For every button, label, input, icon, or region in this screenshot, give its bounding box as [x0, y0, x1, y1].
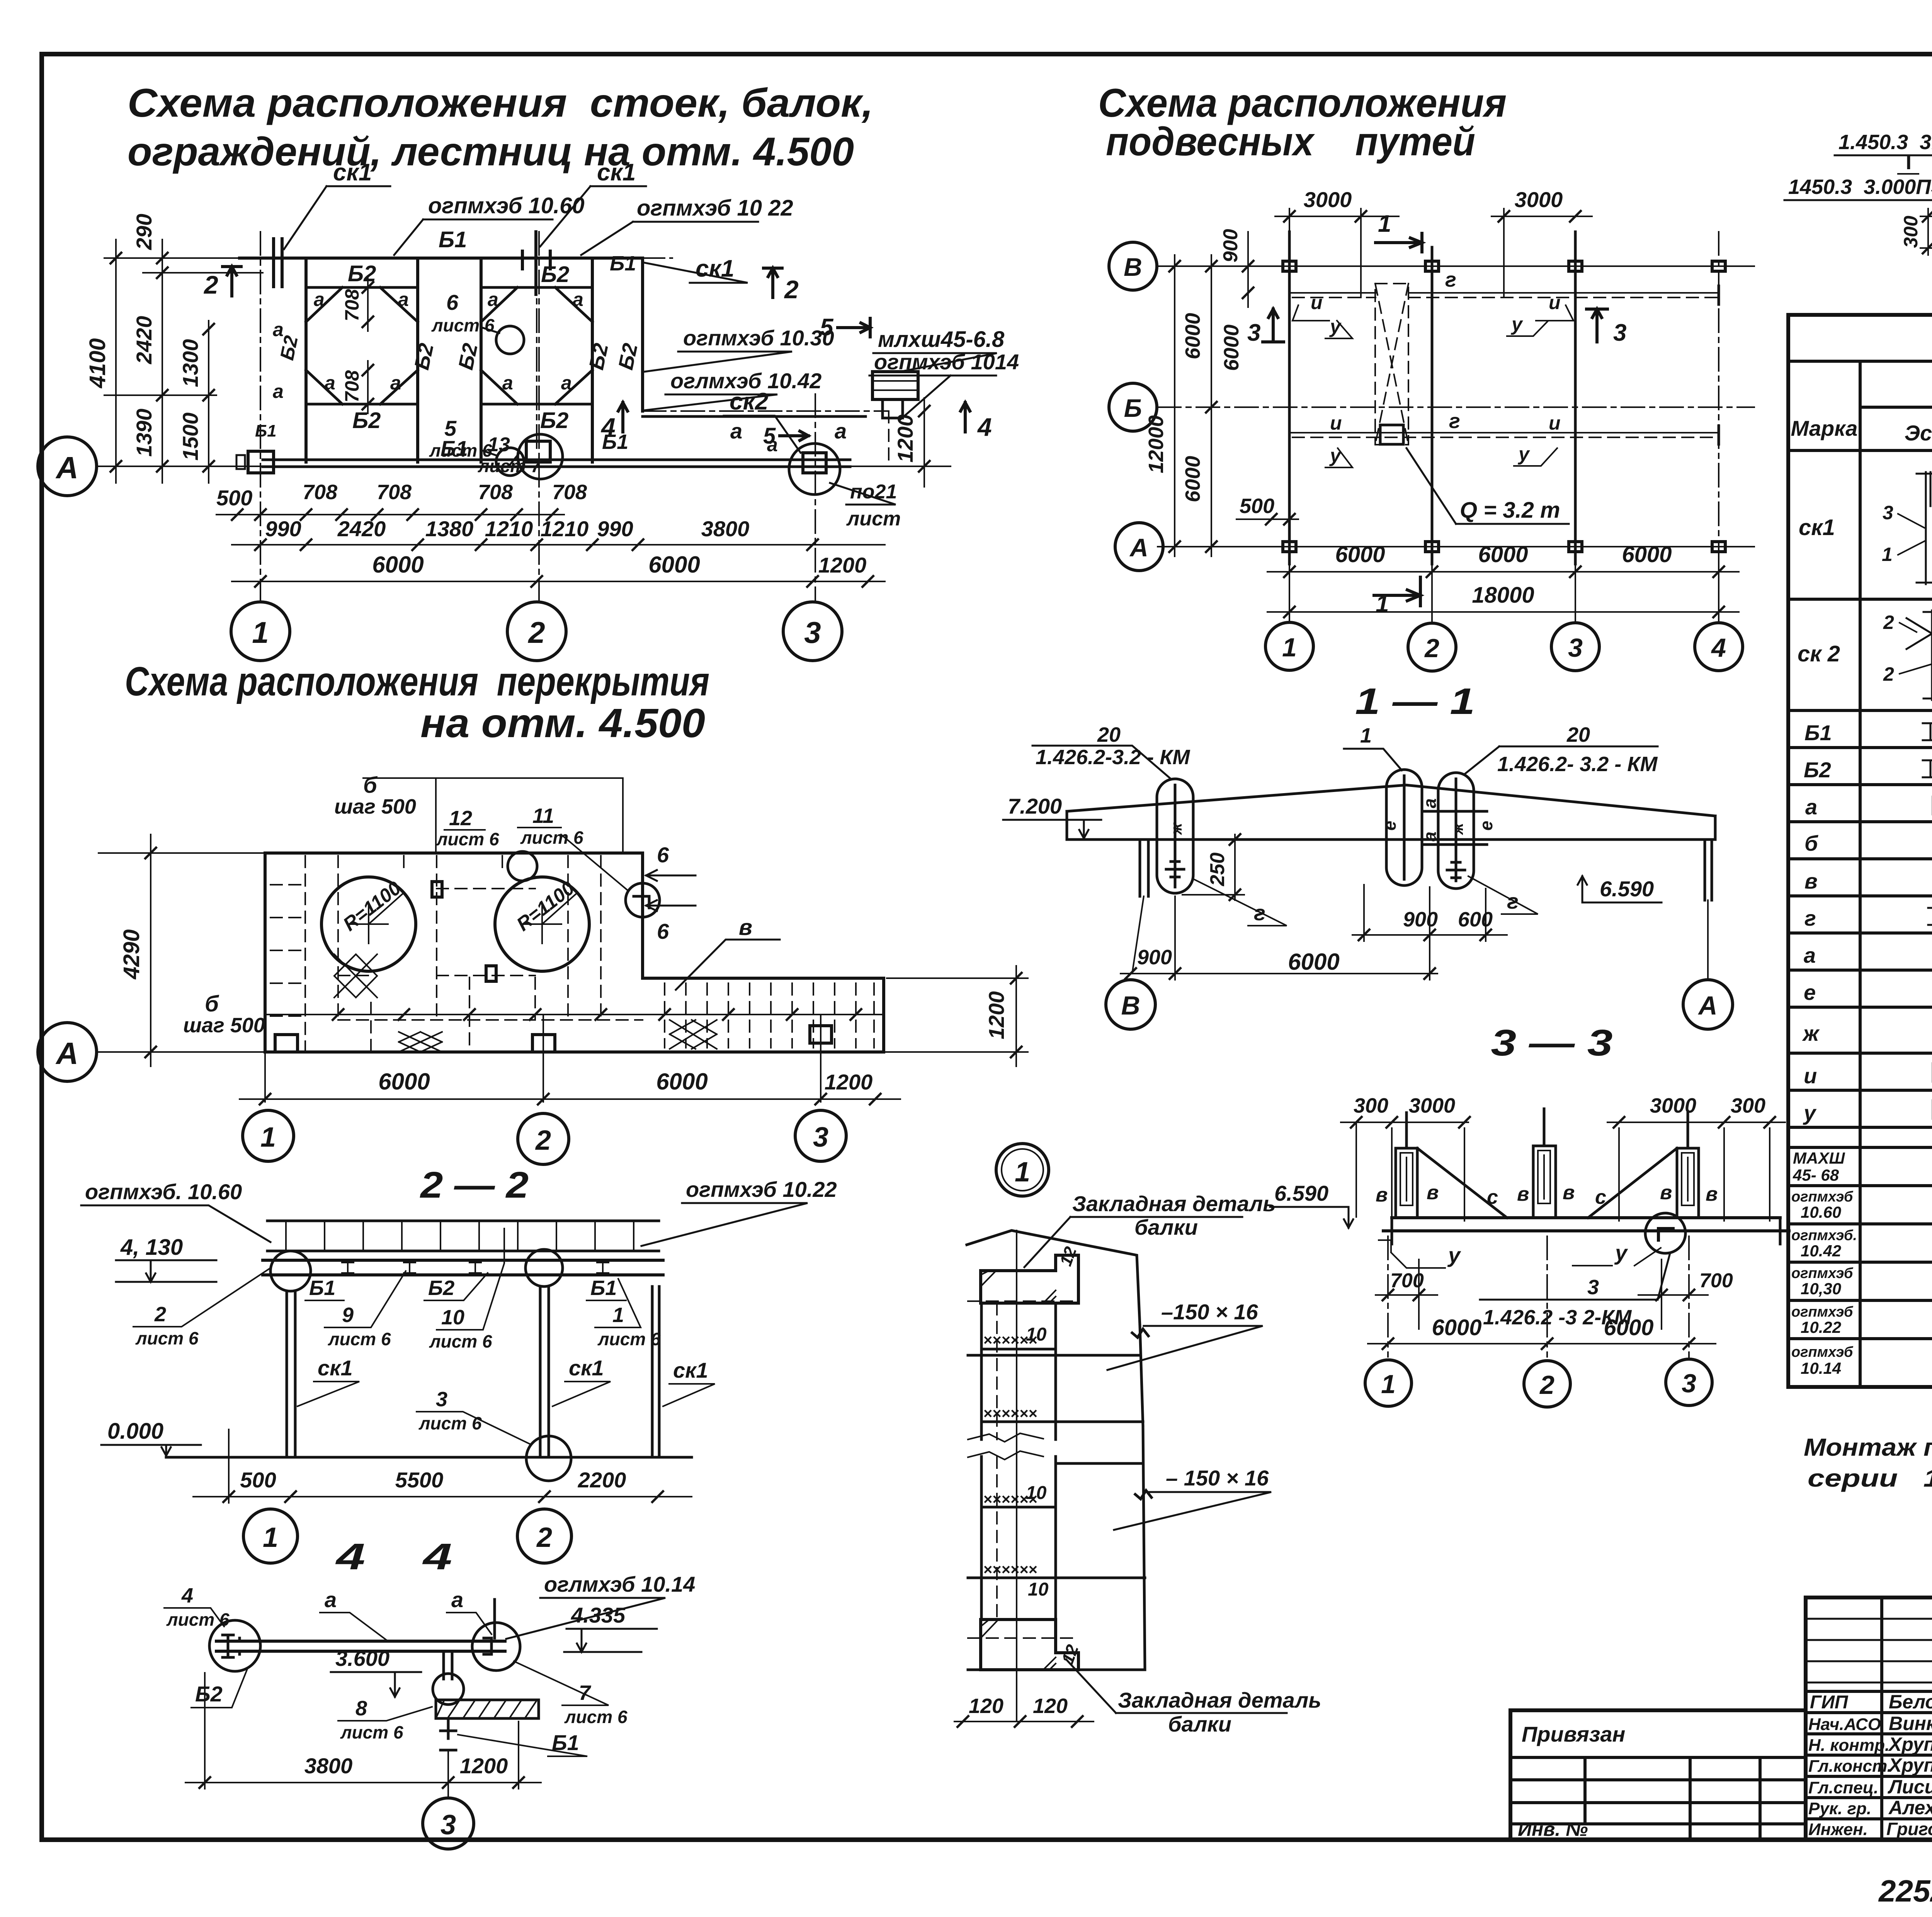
- svg-text:2: 2: [1883, 612, 1894, 633]
- svg-text:у: у: [1614, 1241, 1628, 1265]
- svg-text:6: 6: [657, 843, 669, 867]
- connect plate a bottom: [1422, 843, 1487, 846]
- section mark 4 left: [618, 403, 628, 432]
- beam line x1245: [480, 258, 483, 462]
- svg-text:500: 500: [240, 1468, 276, 1492]
- g right leader: [1468, 876, 1538, 914]
- svg-text:1: 1: [1360, 724, 1372, 747]
- section mark 5 top: [838, 318, 870, 337]
- section mark 2 right: [764, 268, 782, 297]
- post 2 rod: [1543, 1109, 1546, 1146]
- svg-text:Инжен.: Инжен.: [1808, 1820, 1868, 1839]
- hanger 1 outline: [1157, 779, 1193, 893]
- svg-text:3 — 3: 3 — 3: [1491, 1022, 1613, 1064]
- 8 underline leader: [338, 1707, 432, 1721]
- dim 900-6000 line: [1121, 973, 1437, 974]
- svg-text:Винклер: Винклер: [1889, 1713, 1932, 1734]
- svg-text:Лисичкин: Лисичкин: [1888, 1776, 1932, 1798]
- tb small rows: [1806, 1619, 1932, 1682]
- svg-text:2: 2: [1424, 634, 1439, 663]
- CK1 sketch leaders: [1898, 486, 1932, 555]
- svg-text:МАХШ: МАХШ: [1793, 1149, 1845, 1167]
- svg-text:10: 10: [1026, 1324, 1047, 1345]
- svg-text:Б1: Б1: [590, 1276, 617, 1300]
- roof top chord: [1067, 785, 1715, 816]
- 10.14 underline leader: [506, 1598, 665, 1639]
- column at axis3: [803, 453, 826, 473]
- deck top line: [267, 1220, 659, 1222]
- svg-text:900: 900: [1137, 946, 1172, 969]
- svg-text:2: 2: [784, 275, 799, 304]
- svg-text:и: и: [1549, 292, 1561, 313]
- svg-text:лист 6: лист 6: [436, 829, 499, 849]
- MLHSh underline leader: [873, 353, 997, 372]
- bay B bottom beam B2: [481, 403, 592, 406]
- axis A line: [97, 466, 951, 467]
- ext 300 vert: [1920, 216, 1932, 248]
- right end plate: [484, 1599, 495, 1654]
- svg-text:120: 120: [1033, 1694, 1068, 1718]
- svg-text:Схема расположения стоек, бал: Схема расположения стоек, балок,: [128, 81, 873, 126]
- u1 mark: [1325, 321, 1352, 338]
- left stub axis: [1132, 896, 1144, 974]
- hanger circle s44: [433, 1674, 464, 1705]
- v leader: [676, 940, 780, 990]
- svg-text:–150 × 16: –150 × 16: [1161, 1300, 1259, 1324]
- 3 underline leader: [417, 1412, 530, 1444]
- pp circle 1: [1265, 622, 1313, 670]
- svg-text:1.426.2-3.2 - КМ: 1.426.2-3.2 - КМ: [1036, 746, 1190, 769]
- svg-text:Монтаж подвесных путей вести: Монтаж подвесных путей вести строго по у…: [1804, 1433, 1932, 1461]
- svg-text:б: б: [363, 773, 378, 798]
- ext s44 left: [204, 1673, 206, 1789]
- header bottom line: [1788, 449, 1932, 452]
- column left cap circle: [270, 1251, 311, 1291]
- axis drop 3: [820, 1015, 821, 1102]
- svg-text:Алехова: Алехова: [1888, 1797, 1932, 1818]
- post 3 rod: [1687, 1113, 1689, 1148]
- svg-text:6.590: 6.590: [1274, 1181, 1328, 1205]
- hanger 2 rod: [1403, 776, 1406, 879]
- svg-text:1210: 1210: [485, 517, 533, 541]
- title block outer: [1806, 1597, 1932, 1840]
- svg-text:в: в: [1660, 1181, 1672, 1204]
- 3 km leader: [1658, 1253, 1670, 1300]
- ext 250: [1182, 894, 1244, 896]
- svg-text:а: а: [273, 381, 284, 402]
- svg-text:6000: 6000: [1335, 542, 1385, 567]
- svg-text:300: 300: [1354, 1094, 1388, 1117]
- s33 circle 1: [1365, 1360, 1412, 1406]
- pp dim row1: [1267, 571, 1739, 573]
- svg-text:огпмхэб. 10.60: огпмхэб. 10.60: [85, 1179, 242, 1204]
- B2 underline leader s44: [191, 1669, 247, 1708]
- beam band bottom: [263, 1273, 663, 1276]
- svg-text:Б: Б: [1124, 394, 1142, 422]
- level 0.000 mark: [101, 1445, 201, 1456]
- ext 3000 left: [1289, 209, 1361, 297]
- svg-text:в: в: [1804, 869, 1818, 893]
- svg-text:1200: 1200: [984, 991, 1009, 1040]
- rail B hooks: [1293, 297, 1719, 298]
- dim 900-600 line: [1352, 934, 1507, 936]
- dim chain 290/2420/1390 line: [162, 240, 163, 483]
- section 3 mark left: [1263, 309, 1284, 342]
- svg-text:огпмхэб 10 22: огпмхэб 10 22: [637, 195, 793, 221]
- svg-text:250: 250: [1206, 853, 1229, 887]
- splice band 1 top: [968, 1354, 1140, 1357]
- svg-text:лист 6: лист 6: [564, 1707, 628, 1727]
- column mid: [540, 1286, 549, 1457]
- svg-text:4, 130: 4, 130: [120, 1235, 183, 1260]
- hanger 2 outline: [1386, 770, 1422, 885]
- svg-text:3000: 3000: [1515, 187, 1563, 212]
- svg-text:3: 3: [1682, 1369, 1696, 1398]
- 1 hanger leader: [1344, 749, 1402, 770]
- u4 mark: [1514, 448, 1557, 466]
- tb person rows: [1806, 1691, 1932, 1819]
- splice band 1 bottom: [981, 1421, 1143, 1423]
- svg-text:и: и: [1549, 412, 1561, 434]
- weld line 3: [981, 1506, 1056, 1509]
- svg-text:Б2: Б2: [195, 1682, 223, 1706]
- svg-text:10.42: 10.42: [1801, 1242, 1841, 1260]
- s44 axis drop: [447, 1750, 449, 1798]
- axis 3 line: [815, 394, 816, 601]
- extension top left: [99, 852, 270, 854]
- dim 900 line pp: [1247, 232, 1249, 307]
- dashed flange inner: [996, 1303, 998, 1620]
- column at axis2 circle 13: [518, 434, 563, 479]
- svg-text:6000: 6000: [378, 1069, 430, 1094]
- svg-text:а: а: [398, 289, 409, 310]
- floor strip s44: [436, 1700, 539, 1718]
- CK2 sketch: [1906, 610, 1932, 700]
- svg-text:лист 6: лист 6: [328, 1329, 391, 1349]
- axis B circle s11: [1106, 980, 1155, 1029]
- ext s44 right: [518, 1722, 519, 1789]
- hanger 3 outline: [1438, 773, 1474, 889]
- dim 700 left line: [1376, 1294, 1437, 1296]
- axis Bb line: [1158, 406, 1754, 408]
- post 2 slot: [1538, 1151, 1550, 1203]
- column line 3: [1574, 232, 1577, 564]
- hoist bottom box: [1380, 425, 1403, 444]
- B1 underline leader s44: [458, 1735, 587, 1756]
- svg-text:А: А: [1129, 533, 1148, 562]
- svg-text:лист 6: лист 6: [431, 315, 495, 335]
- hatch patch mid: [334, 954, 377, 998]
- dim 700 right line: [1638, 1294, 1708, 1296]
- dim 4290 line: [150, 834, 151, 1066]
- ogpmhb1022 underline leader: [581, 222, 758, 255]
- R arrow 1: [369, 892, 404, 924]
- svg-text:на отм. 4.500: на отм. 4.500: [420, 700, 705, 746]
- circle opening 1: [321, 877, 416, 971]
- detail centre line: [1016, 1230, 1017, 1722]
- svg-text:3: 3: [1587, 1276, 1599, 1299]
- svg-text:300: 300: [1900, 216, 1922, 248]
- u left corner mark: [1379, 1240, 1445, 1268]
- svg-text:Б1: Б1: [610, 252, 636, 275]
- plan2 inner left rail: [304, 856, 306, 1050]
- svg-text:А: А: [55, 450, 78, 485]
- column at axis3 circle po21: [789, 444, 840, 495]
- circle opening 2: [495, 877, 589, 971]
- svg-text:45- 68: 45- 68: [1793, 1166, 1839, 1184]
- svg-text:1200: 1200: [825, 1070, 873, 1094]
- svg-text:3000: 3000: [1409, 1094, 1455, 1117]
- axis A circle plan1: [38, 437, 97, 496]
- svg-text:10: 10: [1028, 1579, 1049, 1600]
- svg-text:Белоус: Белоус: [1889, 1691, 1932, 1713]
- svg-text:с: с: [1595, 1186, 1606, 1208]
- svg-text:708: 708: [303, 481, 337, 504]
- svg-text:лист 6: лист 6: [340, 1722, 403, 1742]
- svg-text:лист 6: лист 6: [166, 1609, 230, 1630]
- svg-text:6000: 6000: [1220, 325, 1243, 371]
- post 3 slot: [1682, 1153, 1694, 1205]
- row line CK1/CK2: [1788, 598, 1932, 601]
- s33 top dim right line: [1607, 1122, 1785, 1123]
- s33 dim 6000 line: [1368, 1343, 1716, 1344]
- bottom line detail: [968, 1669, 1145, 1671]
- 6.590 s11 mark: [1578, 876, 1662, 902]
- axis A drop s11: [1707, 935, 1709, 980]
- svg-text:3000: 3000: [1304, 187, 1352, 212]
- svg-text:а: а: [573, 289, 583, 310]
- svg-text:2: 2: [535, 1125, 551, 1156]
- svg-text:1.450.3 3.000 ПЗлист 13: 1.450.3 3.000 ПЗлист 13: [1838, 131, 1932, 154]
- break squiggle 2: [968, 1451, 1043, 1460]
- svg-text:е: е: [1476, 821, 1496, 831]
- ogpmhb1014 underline leader: [869, 376, 996, 420]
- svg-text:шаг 500: шаг 500: [334, 795, 416, 818]
- hanger 1 rod: [1174, 785, 1177, 887]
- floor hatch s44: [436, 1700, 537, 1718]
- s33 circle 2: [1524, 1361, 1570, 1407]
- beam 4-4 top: [216, 1640, 505, 1643]
- grid circle 1: [231, 602, 290, 661]
- bottom closure plate: [981, 1620, 1078, 1670]
- svg-text:ск1: ск1: [673, 1358, 708, 1382]
- svg-text:6000: 6000: [656, 1069, 707, 1094]
- right column stub: [1705, 840, 1712, 900]
- svg-text:13: 13: [488, 433, 510, 456]
- bay A 708 dims: [367, 278, 369, 413]
- 7.200 mark: [1003, 820, 1101, 838]
- svg-text:3: 3: [1613, 319, 1626, 346]
- R arrow 2: [542, 892, 578, 924]
- svg-text:990: 990: [265, 517, 301, 541]
- grid circle 2: [507, 602, 566, 661]
- svg-text:а: а: [1805, 795, 1817, 819]
- u right leader: [1573, 1248, 1661, 1266]
- svg-text:ГИП: ГИП: [1810, 1692, 1849, 1713]
- 11 underline leader: [518, 828, 628, 891]
- pp dim row2: [1267, 611, 1739, 613]
- CK1 underline leader: [284, 186, 390, 249]
- 9 underline leader: [325, 1271, 406, 1327]
- svg-text:ск1: ск1: [1799, 515, 1835, 540]
- column flange lines: [981, 1303, 1056, 1620]
- svg-text:6000: 6000: [1604, 1315, 1653, 1340]
- plan top chord: [240, 257, 643, 260]
- svg-text:ск2: ск2: [730, 388, 768, 415]
- svg-text:1 — 1: 1 — 1: [1355, 681, 1475, 722]
- svg-text:1: 1: [1882, 544, 1893, 565]
- section 3 mark right: [1587, 309, 1607, 342]
- axis B line: [1158, 265, 1754, 267]
- svg-text:6000: 6000: [1181, 313, 1204, 359]
- svg-text:огпмхэб: огпмхэб: [1791, 1304, 1854, 1320]
- hoist X: [1375, 284, 1408, 445]
- dim 250 line: [1234, 834, 1236, 900]
- roof bottom chord: [1067, 838, 1715, 841]
- pp circle 2: [1408, 623, 1456, 671]
- 3.600 mark: [331, 1672, 421, 1697]
- svg-text:у: у: [1803, 1101, 1817, 1125]
- section mark 2 left: [223, 267, 241, 296]
- svg-text:3800: 3800: [701, 517, 750, 541]
- svg-text:1390: 1390: [132, 409, 156, 457]
- connect plate a top: [1422, 810, 1487, 813]
- detail right edge: [1132, 1326, 1151, 1670]
- svg-text:и: и: [1311, 292, 1323, 313]
- extension line left top: [104, 257, 263, 259]
- pp axis stubs: [1289, 564, 1719, 624]
- svg-text:серии 1.426.2 - 3.2 - КМ: серии 1.426.2 - 3.2 - КМ: [1808, 1464, 1932, 1492]
- svg-text:3: 3: [1883, 502, 1893, 523]
- dashed line plate: [968, 1300, 1078, 1302]
- bay B top beam B2: [481, 286, 592, 289]
- bay B centre dashdot: [536, 270, 537, 452]
- hoist dashed rect: [1375, 284, 1408, 445]
- svg-text:3000: 3000: [1650, 1094, 1696, 1117]
- column sq axis2: [532, 1035, 555, 1052]
- svg-text:а: а: [451, 1587, 463, 1612]
- svg-text:г: г: [1449, 410, 1460, 433]
- svg-text:3: 3: [1247, 319, 1260, 346]
- circle 6: [496, 326, 524, 354]
- i2 mark: [1536, 305, 1573, 321]
- axis 1 line: [260, 232, 261, 601]
- svg-text:700: 700: [1390, 1270, 1424, 1292]
- column sq axis1: [275, 1035, 298, 1052]
- svg-text:12: 12: [449, 807, 472, 830]
- svg-text:1: 1: [1381, 1370, 1396, 1399]
- svg-text:А: А: [55, 1036, 78, 1071]
- CK2 underline leader: [724, 416, 801, 453]
- svg-text:Б1: Б1: [439, 227, 467, 252]
- svg-text:огпмхэб 10.30: огпмхэб 10.30: [683, 326, 834, 350]
- section 1 mark top: [1376, 233, 1422, 252]
- CK1 right underline leader: [645, 263, 748, 283]
- svg-text:700: 700: [1699, 1270, 1733, 1292]
- dim 120 120 line: [954, 1721, 1094, 1722]
- svg-text:10,30: 10,30: [1801, 1280, 1841, 1298]
- col marka: [1859, 361, 1862, 1387]
- beam line x1533: [591, 258, 594, 462]
- svg-text:××××××: ××××××: [983, 1561, 1037, 1578]
- grid2 circle 3: [795, 1110, 846, 1161]
- svg-text:11: 11: [532, 804, 554, 828]
- axis A circle s11: [1683, 980, 1733, 1029]
- svg-text:4.335: 4.335: [571, 1603, 626, 1627]
- axis A line pp: [1158, 546, 1754, 547]
- svg-text:а: а: [488, 289, 498, 310]
- grid2 circle 1: [243, 1110, 294, 1161]
- svg-text:В: В: [1124, 253, 1142, 281]
- svg-text:ск1: ск1: [333, 159, 372, 186]
- svg-text:3: 3: [1568, 633, 1583, 663]
- po21 leader: [830, 483, 896, 505]
- svg-text:12000: 12000: [1145, 415, 1168, 473]
- svg-text:1380: 1380: [425, 517, 474, 541]
- CK1a underline leader: [298, 1382, 359, 1406]
- hatch patch strip1: [399, 1032, 442, 1052]
- svg-text:огпмхэб.: огпмхэб.: [1791, 1227, 1857, 1244]
- roof peak outline: [967, 1230, 1140, 1326]
- 4 underline leader: [164, 1608, 224, 1626]
- svg-text:Гл.конст.: Гл.конст.: [1808, 1757, 1892, 1776]
- a underline leader b: [447, 1613, 492, 1634]
- svg-text:в: в: [1517, 1183, 1529, 1205]
- svg-text:6000: 6000: [1622, 542, 1672, 567]
- beam small I sections: [342, 1263, 609, 1273]
- post 2: [1533, 1146, 1556, 1218]
- svg-text:3800: 3800: [304, 1754, 353, 1778]
- hanger post s44: [444, 1651, 452, 1679]
- svg-text:1300: 1300: [178, 339, 202, 387]
- svg-text:Закладная деталь: Закладная деталь: [1072, 1191, 1276, 1216]
- MLHSh lower square: [883, 399, 903, 418]
- svg-text:6000: 6000: [1181, 456, 1204, 502]
- svg-text:1.426.2- 3.2 - КМ: 1.426.2- 3.2 - КМ: [1497, 753, 1658, 776]
- s22 1060 underline leader: [81, 1205, 270, 1242]
- svg-text:5500: 5500: [395, 1468, 444, 1492]
- svg-text:2200: 2200: [578, 1468, 626, 1492]
- i1 mark: [1293, 305, 1329, 321]
- svg-text:В: В: [1121, 991, 1140, 1020]
- beam end ticks: [1392, 1218, 1780, 1244]
- svg-text:1: 1: [1282, 633, 1297, 662]
- rail mid dashes: [1293, 437, 1719, 438]
- g left leader: [1194, 879, 1287, 926]
- s22 1022 underline leader: [641, 1203, 808, 1246]
- svg-text:Б1: Б1: [1804, 721, 1832, 745]
- zakladnaya top leader: [1024, 1217, 1242, 1267]
- svg-text:Схема расположения перекрытия: Схема расположения перекрытия: [125, 659, 709, 704]
- svg-text:млхш45-6.8: млхш45-6.8: [878, 327, 1005, 352]
- bay B top diagonals: [481, 287, 592, 322]
- svg-text:10.60: 10.60: [1801, 1203, 1841, 1221]
- small circle 12: [508, 851, 537, 881]
- svg-text:огпмхэб: огпмхэб: [1791, 1344, 1854, 1360]
- top closure plate: [981, 1255, 1078, 1303]
- pv col3: [1759, 1757, 1762, 1840]
- a underline leader a: [320, 1613, 386, 1640]
- top chord axis dash-dot: [216, 257, 672, 259]
- CK1 sketch: [1917, 472, 1932, 584]
- svg-text:Б2: Б2: [541, 262, 569, 287]
- dim row3 line: [232, 581, 885, 582]
- s33 top dim left line: [1341, 1122, 1468, 1123]
- pv col2: [1689, 1757, 1692, 1840]
- leader 6: [482, 328, 499, 333]
- svg-text:Б2: Б2: [428, 1276, 454, 1300]
- I underline: [1898, 173, 1918, 175]
